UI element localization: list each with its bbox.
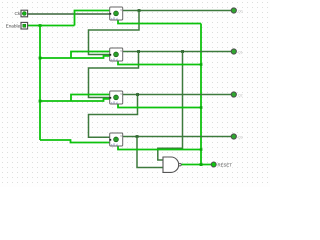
node Q0 feedback junction: [138, 9, 141, 12]
node Q2 feedback junction: [136, 93, 139, 96]
wire Q1 feedback to U3: [89, 52, 139, 98]
node rail junction stage2: [39, 57, 42, 60]
flip-flop U2: [109, 48, 122, 61]
svg-text:s R d: s R d: [111, 16, 118, 20]
svg-text:s R d: s R d: [111, 142, 118, 146]
node Enable junction: [39, 24, 42, 27]
node reset-wire junction U2: [200, 63, 203, 66]
NAND gate U5: [163, 157, 181, 172]
wire U1 south reset wire: [118, 20, 201, 24]
node Q1 NAND junction: [181, 50, 184, 53]
wire Ck to U1 clock: [28, 13, 111, 15]
wire U4 south reset wire: [118, 146, 201, 150]
svg-text:Q2: Q2: [238, 94, 243, 98]
wire Q1 output line: [123, 51, 232, 53]
flip-flop U4: [109, 133, 122, 146]
node Q3 NAND junction: [136, 135, 139, 138]
wire Q2 output line: [123, 94, 232, 96]
wire Enable branch stage3 rail: [40, 99, 110, 101]
node rail junction stage3: [39, 100, 42, 103]
svg-text:s R d: s R d: [111, 100, 118, 104]
svg-text:Q0: Q0: [238, 10, 243, 14]
wire Q1 to NAND upper input: [158, 52, 183, 161]
output pin Q1: [231, 49, 242, 55]
svg-text:Q1: Q1: [238, 51, 243, 55]
flip-flop U1: [109, 7, 122, 20]
wire Enable branch stage2 rail: [40, 56, 110, 58]
output pin Q2: [231, 92, 242, 98]
wire Enable branch stage4 rail: [40, 140, 110, 143]
input pin Enable: [6, 22, 28, 29]
node Q1 feedback junction: [137, 50, 140, 53]
flip-flop U3: [109, 91, 122, 104]
svg-text:RESET: RESET: [218, 162, 233, 167]
svg-text:Q3: Q3: [238, 136, 243, 140]
svg-text:s R d: s R d: [111, 57, 118, 61]
wire Enable riser to U1 T input: [75, 11, 111, 26]
wire Q3 output line: [123, 136, 232, 138]
wire U3 south reset wire: [118, 104, 201, 108]
output pin Q3: [231, 134, 242, 140]
output pin RESET: [211, 162, 232, 167]
wire Q0 feedback to U2: [89, 11, 140, 55]
wire NAND output to RESET pin: [181, 164, 211, 166]
wire Enable jog up to U3 upper pin: [71, 95, 110, 102]
wire Enable vertical distribution x40: [39, 26, 41, 141]
wire Q2 feedback to U4: [89, 95, 138, 138]
input pin Ck: [14, 10, 27, 17]
wire Q3 to NAND lower input: [137, 137, 163, 168]
node reset-wire junction U3: [200, 106, 203, 109]
wire Enable rail horizontal: [28, 25, 75, 27]
node reset junction: [200, 163, 203, 166]
svg-text:Ck: Ck: [14, 11, 20, 16]
wire Q0 output line: [123, 10, 232, 12]
wire Enable jog up to U2 upper pin: [71, 52, 110, 59]
wire reset vertical x201: [200, 24, 202, 165]
wire U2 south reset wire: [118, 61, 201, 65]
node reset-wire junction U4: [200, 148, 203, 151]
svg-text:Enable: Enable: [6, 24, 21, 29]
output pin Q0: [231, 8, 242, 14]
